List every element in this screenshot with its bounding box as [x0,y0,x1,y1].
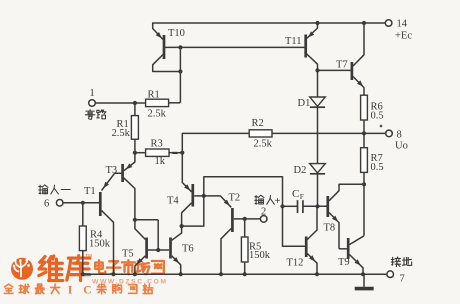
svg-text:0.5: 0.5 [371,111,384,122]
svg-text:T6: T6 [182,244,194,255]
svg-text:D1: D1 [298,98,311,109]
svg-text:2: 2 [261,207,266,218]
svg-text:0.5: 0.5 [371,162,384,173]
svg-text:R2: R2 [252,118,264,129]
svg-text:150k: 150k [249,250,271,261]
svg-text:T3: T3 [106,165,118,176]
svg-text:150k: 150k [89,239,111,250]
svg-text:T9: T9 [338,257,350,268]
svg-text:T4: T4 [167,196,179,207]
svg-text:T1: T1 [84,186,96,197]
svg-text:14: 14 [397,19,408,30]
svg-text:F: F [300,192,304,201]
svg-text:T10: T10 [168,28,185,39]
svg-text:+Ec: +Ec [395,31,412,42]
svg-text:T12: T12 [287,258,304,269]
svg-text:1k: 1k [155,156,166,167]
svg-text:T8: T8 [324,223,336,234]
svg-text:2.5k: 2.5k [254,139,273,150]
svg-text:T7: T7 [336,60,348,71]
svg-text:8: 8 [397,130,402,141]
svg-text:T5: T5 [122,249,134,260]
svg-text:6: 6 [44,199,49,210]
svg-text:D2: D2 [294,165,307,176]
svg-text:TM: TM [85,253,92,258]
svg-text:7: 7 [400,274,405,285]
svg-text:1: 1 [90,88,95,99]
svg-text:C: C [83,285,91,297]
svg-text:2.5k: 2.5k [112,128,131,139]
svg-text:Uo: Uo [395,141,408,152]
svg-text:2.5k: 2.5k [148,108,167,119]
svg-text:C: C [292,188,299,200]
svg-text:I: I [68,285,73,297]
svg-text:T2: T2 [229,193,241,204]
svg-text:T11: T11 [285,36,302,47]
svg-text:R3: R3 [151,139,163,150]
svg-text:R1: R1 [148,90,160,101]
svg-text:+: + [275,196,281,207]
